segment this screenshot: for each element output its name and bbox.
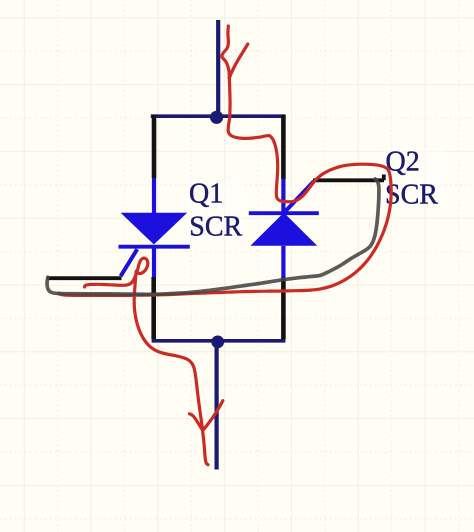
Q2 gate diagonal — [285, 181, 313, 211]
Q1 gate wire black — [47, 276, 122, 280]
wire bottom pin (navy vertical) — [215, 342, 219, 470]
Q2 triangle (pointing up) — [250, 213, 317, 246]
red annotation: arrow left barb — [190, 414, 203, 430]
red annotation: top fork branch — [229, 44, 248, 78]
svg-text:Q1: Q1 — [189, 179, 223, 210]
wire top horizontal — [151, 114, 285, 118]
Q2 gate wire black — [313, 175, 384, 181]
red annotation: arrow right barb — [203, 401, 223, 431]
Q2 cathode bar — [249, 211, 319, 215]
label background Q2 — [382, 149, 444, 209]
junction dot top — [210, 111, 223, 124]
wire left vertical black — [152, 115, 157, 179]
svg-text:SCR: SCR — [189, 212, 242, 243]
wire bottom horizontal — [152, 339, 286, 343]
Q1 gate diagonal — [121, 249, 138, 276]
Q2 pin bottom (blue) — [281, 246, 285, 278]
wire left lower black — [151, 277, 156, 339]
Q1 cathode bar — [119, 245, 190, 249]
svg-text:SCR: SCR — [385, 179, 438, 210]
junction dot bottom — [211, 336, 224, 349]
Q1 triangle (anode, pointing down) — [121, 213, 188, 245]
Q2 pin top (blue) — [281, 179, 285, 212]
gray annotation stroke — [47, 179, 379, 294]
SCR Q2 — [249, 179, 319, 278]
Q1 pin bottom (blue) — [152, 248, 156, 277]
wire top pin (navy vertical) — [216, 20, 220, 115]
wire right vertical black — [281, 115, 286, 180]
red annotation: main squiggle stroke — [59, 26, 392, 465]
SCR Q1 — [119, 178, 190, 277]
wire right lower black — [281, 278, 286, 340]
Q1 pin top (blue) — [152, 178, 156, 214]
label background Q1 — [186, 181, 244, 239]
